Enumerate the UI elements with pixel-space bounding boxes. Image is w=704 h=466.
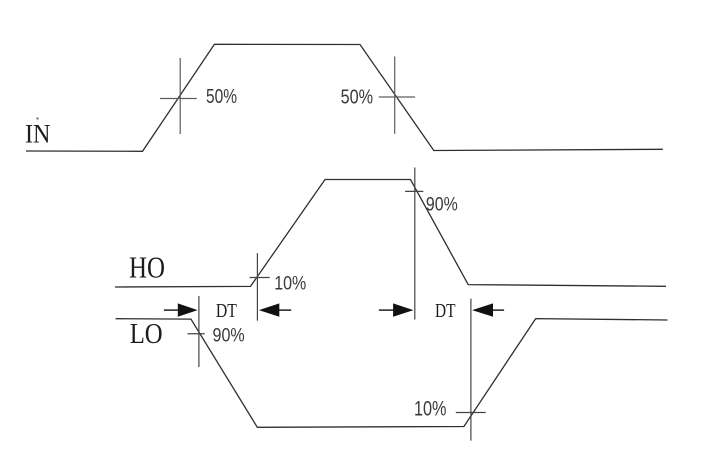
50% cross on IN falling edge xyxy=(379,57,415,134)
stray dot above IN label xyxy=(37,118,39,120)
svg-text:DT: DT xyxy=(435,300,456,322)
LO waveform xyxy=(116,319,668,428)
svg-text:LO: LO xyxy=(130,319,163,350)
DT dimension arrow pointing left (right pair) xyxy=(472,303,504,316)
svg-text:50%: 50% xyxy=(206,86,237,108)
IN waveform xyxy=(26,44,663,151)
DT dimension arrow pointing left (left pair) xyxy=(259,303,291,316)
svg-text:90%: 90% xyxy=(213,325,245,347)
10% marker on HO rising edge xyxy=(250,253,270,321)
HO waveform xyxy=(115,180,666,288)
svg-text:50%: 50% xyxy=(341,87,374,109)
svg-text:HO: HO xyxy=(129,251,165,285)
50% cross on IN rising edge xyxy=(160,58,197,134)
svg-text:10%: 10% xyxy=(414,398,447,421)
DT dimension arrow pointing right (right pair) xyxy=(379,303,414,316)
svg-text:DT: DT xyxy=(216,300,237,322)
svg-text:90%: 90% xyxy=(426,194,458,216)
90% marker on HO falling edge xyxy=(405,168,423,320)
DT dimension arrow pointing right (left pair) xyxy=(164,303,198,316)
90% marker on LO falling edge xyxy=(188,296,205,367)
svg-text:IN: IN xyxy=(25,119,51,149)
10% marker on LO rising edge xyxy=(456,299,486,441)
svg-text:10%: 10% xyxy=(274,274,306,295)
